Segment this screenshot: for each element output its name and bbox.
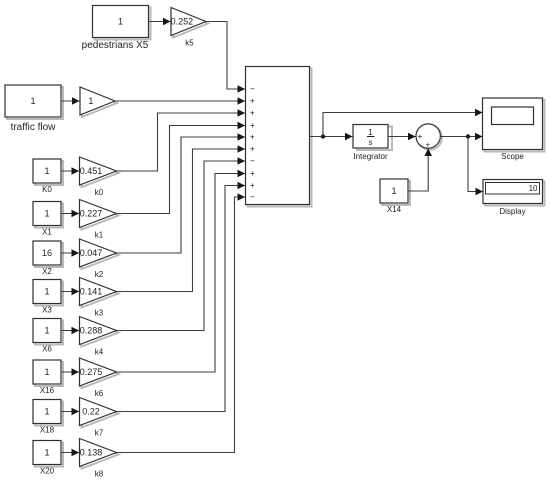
svg-text:X18: X18 — [40, 426, 55, 435]
junction node after Sum — [466, 134, 470, 138]
constant X18 — [33, 400, 63, 435]
svg-text:+: + — [250, 169, 255, 178]
wire X14 to Sum — [408, 149, 432, 192]
wire pedestrians to k5 — [149, 18, 171, 26]
wire k3 to Add — [117, 145, 246, 291]
svg-text:k5: k5 — [185, 39, 194, 48]
wire X3 to k3 — [61, 288, 79, 296]
svg-text:0.227: 0.227 — [80, 209, 103, 219]
svg-text:1: 1 — [391, 186, 396, 196]
svg-text:1: 1 — [44, 326, 49, 336]
wire k1 to Add — [117, 122, 246, 214]
svg-text:0.451: 0.451 — [80, 166, 103, 176]
wire X1 to k1 — [61, 210, 79, 218]
svg-text:0.22: 0.22 — [82, 407, 100, 417]
svg-text:X20: X20 — [40, 467, 55, 476]
svg-text:1: 1 — [368, 128, 373, 137]
gain k8 — [80, 439, 119, 479]
constant pedestrians X5 — [82, 6, 151, 52]
wire k8 to Add — [117, 193, 246, 452]
wire X16 to k6 — [61, 368, 79, 376]
svg-text:+: + — [250, 121, 255, 130]
svg-text:k8: k8 — [95, 470, 104, 479]
constant X3 — [33, 280, 63, 315]
gain k1 — [80, 200, 119, 240]
svg-text:+: + — [250, 97, 255, 106]
svg-text:1: 1 — [44, 166, 49, 176]
wire X2 to k2 — [61, 249, 79, 257]
wire X18 to k7 — [61, 408, 79, 416]
svg-text:pedestrians X5: pedestrians X5 — [82, 40, 149, 51]
wire k6 to Add — [117, 170, 246, 372]
svg-text:X1: X1 — [42, 228, 52, 237]
svg-text:k3: k3 — [95, 309, 104, 318]
svg-text:X16: X16 — [40, 386, 55, 395]
gain traffic unity — [80, 87, 117, 117]
wire traffic flow to gain — [61, 97, 80, 105]
gain k5 — [171, 8, 208, 48]
constant X2 — [33, 241, 63, 276]
svg-text:−: − — [250, 85, 255, 94]
svg-text:traffic flow: traffic flow — [11, 122, 57, 133]
svg-text:1: 1 — [88, 96, 93, 106]
svg-text:X2: X2 — [42, 267, 52, 276]
svg-text:X6: X6 — [42, 345, 52, 354]
svg-text:k1: k1 — [95, 231, 104, 240]
svg-text:k7: k7 — [95, 429, 104, 438]
svg-text:Display: Display — [499, 207, 525, 216]
svg-text:0.141: 0.141 — [80, 287, 103, 297]
wire branch to Display — [468, 137, 483, 196]
gain k2 — [80, 239, 119, 279]
constant X16 — [33, 360, 63, 395]
constant X20 — [33, 441, 63, 476]
wire branch to Scope input1 — [323, 109, 483, 137]
gain k4 — [80, 317, 119, 357]
constant X1 — [33, 202, 63, 237]
svg-text:0.047: 0.047 — [80, 248, 103, 258]
wire Sum to Scope input2 — [441, 133, 483, 141]
svg-text:10: 10 — [529, 184, 538, 193]
wire k0 to Add — [117, 109, 246, 171]
svg-text:k0: k0 — [95, 188, 104, 197]
svg-text:k6: k6 — [95, 389, 104, 398]
svg-text:1: 1 — [44, 209, 49, 219]
constant traffic flow — [5, 85, 63, 133]
constant X6 — [33, 319, 63, 354]
svg-text:0.252: 0.252 — [171, 17, 194, 27]
svg-text:1: 1 — [30, 96, 35, 106]
wire k7 to Add — [117, 182, 246, 412]
svg-text:s: s — [369, 138, 373, 147]
svg-text:Integrator: Integrator — [353, 152, 388, 161]
svg-text:+: + — [250, 133, 255, 142]
svg-text:k4: k4 — [95, 348, 104, 357]
gain k3 — [80, 278, 119, 318]
junction node after Add — [321, 134, 325, 138]
svg-text:−: − — [250, 193, 255, 202]
svg-text:1: 1 — [44, 407, 49, 417]
constant X14 — [380, 179, 410, 214]
gain k6 — [80, 358, 119, 398]
wire X6 to k4 — [61, 327, 79, 335]
sum block Add — [246, 67, 312, 207]
wire Integrator to Sum — [388, 133, 416, 141]
svg-text:1: 1 — [44, 287, 49, 297]
svg-text:+: + — [250, 109, 255, 118]
svg-text:Scope: Scope — [501, 152, 524, 161]
constant K0 — [33, 159, 63, 194]
wire traffic gain to Add port2 — [115, 97, 245, 105]
svg-text:−: − — [250, 157, 255, 166]
svg-text:1: 1 — [44, 448, 49, 458]
svg-text:1: 1 — [118, 17, 123, 27]
wire k2 to Add — [117, 133, 246, 253]
svg-text:k2: k2 — [95, 270, 104, 279]
wire X20 to k8 — [61, 449, 79, 457]
svg-text:0.138: 0.138 — [80, 448, 103, 458]
sum circle — [416, 124, 442, 150]
wire K0 to k0 — [61, 167, 79, 175]
svg-text:K0: K0 — [42, 185, 52, 194]
svg-text:X3: X3 — [42, 306, 52, 315]
svg-text:+: + — [250, 181, 255, 190]
svg-text:0.288: 0.288 — [80, 326, 103, 336]
integrator block — [353, 125, 392, 162]
gain k0 — [80, 157, 119, 197]
svg-text:X14: X14 — [387, 205, 402, 214]
svg-text:1: 1 — [44, 367, 49, 377]
wire Add to Integrator — [310, 133, 353, 141]
wire k5 to Add port1 — [206, 22, 245, 93]
scope block — [483, 98, 545, 161]
svg-text:+: + — [418, 132, 423, 141]
svg-text:+: + — [425, 141, 430, 150]
svg-text:0.275: 0.275 — [80, 367, 103, 377]
svg-text:16: 16 — [42, 248, 52, 258]
svg-text:+: + — [250, 145, 255, 154]
wire k4 to Add — [117, 157, 246, 330]
gain k7 — [80, 398, 119, 438]
display block — [483, 180, 545, 217]
